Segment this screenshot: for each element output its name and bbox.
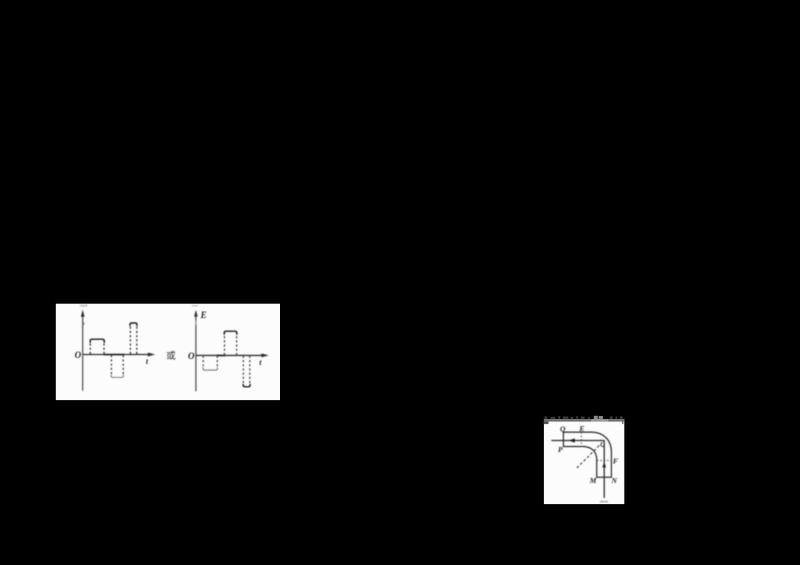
right graph pulse 1 solid bottom [203,367,218,370]
left graph pulse 2 solid bottom [111,375,123,378]
left graph pulse 3 dotted right side [136,324,138,354]
svg-text:或: 或 [166,350,176,362]
diagonal dashed radius line [577,441,604,468]
svg-text:O: O [188,351,195,361]
figure 2 clipped text dashes above band [545,416,623,419]
figure 2 dark block at band left [544,421,549,424]
faint smudge below pipe [600,501,608,503]
svg-text:E: E [200,310,207,320]
right graph pulse 1 dashed left side [202,356,204,368]
left graph: vertical axis arrowhead [81,310,85,317]
figure 2 brighter band segment [591,419,608,421]
pipe bottom opening MN line [596,476,612,478]
svg-text:E: E [578,424,584,433]
left graph pulse 1 dotted left side [89,340,91,355]
vertical center line [603,441,605,498]
pipe left opening QP line [562,432,564,448]
left graph: faint squiggle on axis [82,322,84,330]
figure 2 brighter clipped blocks above band [594,416,598,419]
right graph pulse 3 solid bottom [243,384,250,387]
left graph: horizontal axis [83,354,150,356]
right graph: horizontal axis [196,354,263,356]
left-pointing flow arrowhead [569,438,575,442]
svg-text:F: F [613,456,618,465]
right graph pulse 1 dashed right side [216,356,218,368]
right graph pulse 2 dotted left side [224,332,226,355]
horizontal center line [551,440,604,442]
left graph pulse 3 solid top [130,323,137,326]
svg-text:P: P [558,445,563,454]
right graph: vertical axis arrowhead [194,310,198,317]
up-pointing flow arrowhead [602,462,606,467]
right graph pulse 2 dotted right side [236,332,238,355]
svg-text:Q: Q [560,424,566,433]
left graph pulse 1 solid top [90,339,104,343]
svg-text:N: N [611,476,618,485]
left graph: faint gray dash above axis arrow [80,305,88,307]
figure 2 garbled gray band at panel top [544,419,624,421]
figure 2 band right tail [622,422,624,425]
svg-text:O: O [75,350,82,360]
right graph pulse 3 dotted left side [242,356,244,385]
dotted section line at F [597,459,611,461]
left graph: darker axis segment under pulses [104,354,125,356]
figure 1 white panel [56,304,280,400]
left graph pulse 2 dotted left side [110,355,112,376]
pipe top edge and outer bend curve [563,432,611,477]
svg-text:M: M [589,476,597,485]
right graph: faint gray dash above axis arrow [192,305,198,307]
left graph: vertical axis [82,314,84,391]
right graph pulse 3 dotted right side [249,356,251,385]
right graph: vertical axis [195,314,197,392]
left graph pulse 1 dotted right side [103,340,105,355]
figure 2 white panel [544,419,624,504]
left graph pulse 3 dotted left side [129,324,131,354]
right graph: darker axis segment between pulses [217,355,226,357]
angle arc at bend corner [600,445,604,447]
left graph: horizontal axis arrowhead [148,353,155,357]
right graph: faint mark on axis [195,321,197,325]
pipe bottom edge and inner bend curve [563,447,596,478]
left graph pulse 2 dotted right side [122,355,124,376]
dotted section line at E [580,432,582,446]
right graph: horizontal axis arrowhead [261,353,268,357]
right graph pulse 2 solid top [224,331,237,335]
